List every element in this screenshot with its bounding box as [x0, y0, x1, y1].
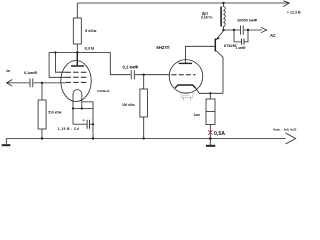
tube V1 grid row 2: [66, 76, 87, 78]
svg-text:0,16 Гн: 0,16 Гн: [201, 16, 212, 20]
capacitor C4 10000uF: [240, 26, 243, 35]
svg-text:0,1мкФ: 0,1мкФ: [24, 71, 38, 75]
node filament left: [72, 107, 74, 109]
node input grid junction: [41, 82, 43, 84]
transistor Q1 emitter arrow: [216, 37, 219, 40]
wire bottom ground rail: [6, 138, 286, 140]
wire top supply rail: [77, 2, 288, 4]
node top rail to R1: [76, 3, 78, 18]
node C5 branch left: [233, 29, 235, 31]
svg-text:0,5А: 0,5А: [214, 131, 225, 137]
node filament right: [81, 107, 83, 109]
node filament ground junction: [92, 137, 94, 139]
wire AC output: [224, 29, 240, 31]
svg-text:6Н27П: 6Н27П: [157, 45, 170, 50]
input terminal arrow: [7, 80, 13, 87]
polarity plus mark: [83, 119, 85, 121]
node R2 ground junction: [41, 137, 43, 139]
node C5 branch right: [247, 29, 249, 31]
node anode junction V1: [76, 51, 78, 53]
resistor R1 5kOhm: [73, 18, 81, 44]
capacitor C1 0,1uF: [30, 78, 33, 87]
transistor Q1 collector: [216, 31, 224, 40]
wire anode to C2: [110, 52, 130, 74]
node cathode R4 junction: [209, 92, 211, 94]
svg-text:5 кОм: 5 кОм: [85, 28, 96, 33]
heater box: [181, 92, 193, 97]
tube V2 anode: [179, 62, 193, 64]
svg-text:1н: 1н: [6, 69, 10, 73]
bottom rail arrowhead: [286, 133, 296, 144]
power +12,3V arrowhead: [283, 1, 289, 7]
svg-text:1ом: 1ом: [194, 113, 201, 117]
tube V1 grid row 3: [66, 81, 87, 83]
tube V1 filament: [73, 90, 82, 109]
svg-text:1 мкФ: 1 мкФ: [236, 46, 246, 50]
choke L1 winding: [223, 3, 225, 30]
svg-text:10000 мкФ: 10000 мкФ: [237, 17, 258, 22]
node R4 ground junction: [209, 137, 212, 140]
transistor Q1 emitter: [216, 51, 223, 94]
capacitor C3 bias: [87, 120, 89, 129]
node collector junction: [222, 29, 224, 31]
wire V2 anode to base: [186, 46, 215, 63]
svg-text:АС: АС: [270, 33, 276, 38]
tube V1 anode: [71, 52, 84, 66]
capacitor C2 0,1uF: [131, 70, 134, 79]
wire cathode cap right: [90, 123, 93, 125]
fuse X mark 0,5A: [208, 130, 212, 134]
wire input: [7, 82, 30, 84]
resistor R2 510kOhm: [41, 83, 43, 100]
node screen tap: [54, 51, 56, 53]
wire screen grid loop outer: [49, 52, 66, 77]
node cap junction: [92, 123, 94, 125]
svg-text:Напр. – 8х8, №23: Напр. – 8х8, №23: [273, 127, 297, 131]
tube V2 cathode: [175, 85, 196, 88]
svg-text:100 кОм: 100 кОм: [122, 103, 135, 107]
ground symbol left: [5, 139, 7, 145]
capacitor C5 1uF branch: [234, 30, 248, 42]
resistor R4 1 Ohm: [209, 93, 211, 99]
node V2 grid junction: [143, 74, 145, 76]
wire C2 to V2 grid: [135, 74, 169, 76]
ground symbol mid: [209, 139, 211, 145]
resistor R3 100kOhm: [143, 75, 145, 89]
node choke top junction: [222, 2, 224, 4]
svg-text:+ 12,3 В: + 12,3 В: [287, 11, 301, 15]
wire R1 bottom to anode node: [76, 44, 78, 52]
wire filament bus: [73, 108, 93, 110]
heater pins: [184, 97, 191, 100]
svg-text:8,3 В: 8,3 В: [85, 46, 95, 51]
wire cathode lead: [196, 88, 224, 93]
tube V1 grid row 1: [66, 71, 87, 73]
wire screen grid loop inner: [55, 52, 66, 72]
tube V1 envelope: [61, 61, 91, 102]
node R3 ground junction: [143, 137, 145, 139]
tube V2 grid: [172, 74, 196, 76]
svg-text:1П24Б-В: 1П24Б-В: [97, 89, 110, 93]
wire cathode cap left: [73, 123, 86, 125]
wire C1 to grid: [33, 82, 65, 84]
svg-text:0,1 мкФ: 0,1 мкФ: [123, 65, 139, 70]
heater inner mark: [183, 95, 189, 97]
wire filament left leg down: [72, 109, 74, 125]
wire filament to ground rail: [82, 102, 93, 139]
AC arrowhead: [261, 27, 267, 32]
transistor Q1 base bar: [214, 39, 216, 52]
choke L1 core: [220, 7, 222, 27]
wire anode line: [49, 51, 110, 53]
tube V2 envelope: [169, 60, 203, 94]
svg-text:1,19 В - Сd: 1,19 В - Сd: [58, 127, 79, 131]
svg-text:510 кОм: 510 кОм: [48, 110, 62, 114]
